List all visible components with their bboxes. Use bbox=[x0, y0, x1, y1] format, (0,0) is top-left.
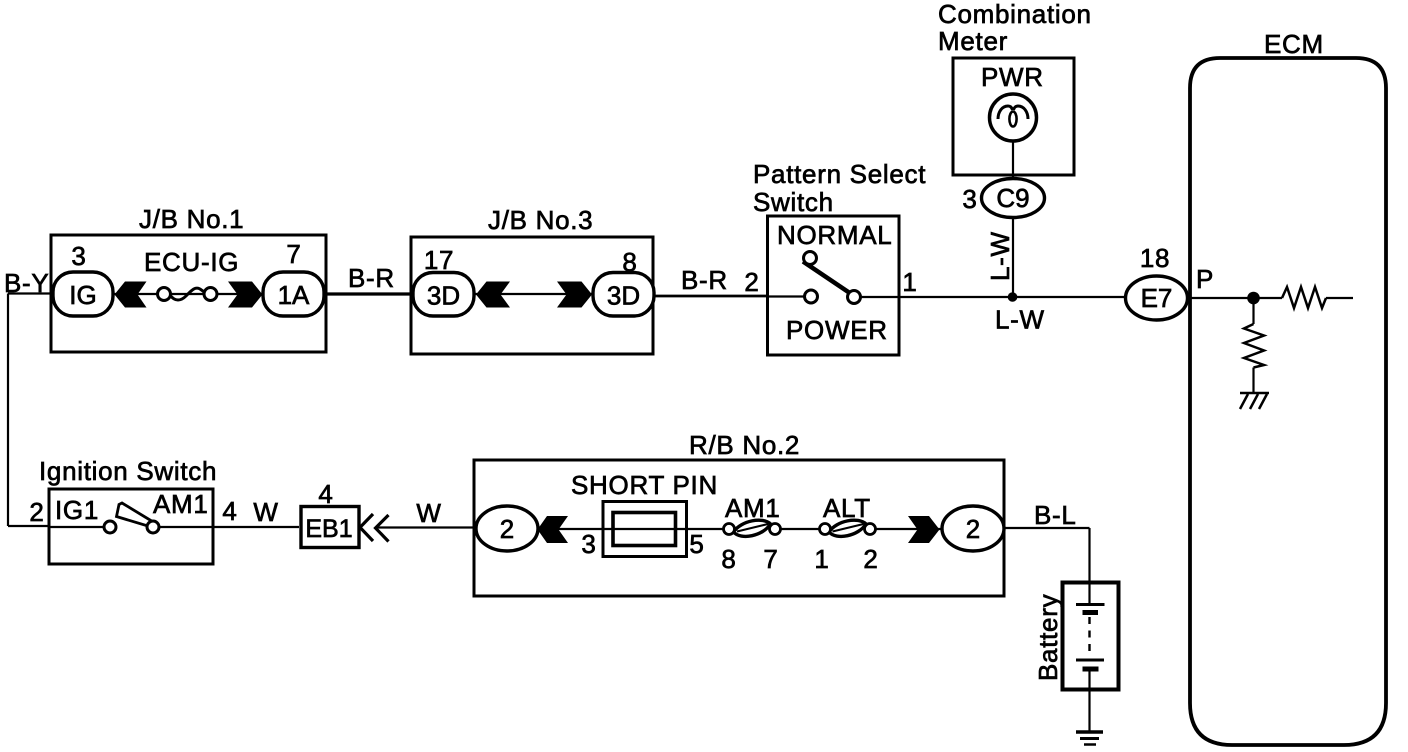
svg-text:4: 4 bbox=[318, 479, 333, 509]
svg-text:L-W: L-W bbox=[985, 231, 1015, 281]
svg-text:2: 2 bbox=[744, 267, 759, 297]
svg-text:Combination: Combination bbox=[938, 0, 1092, 29]
svg-text:POWER: POWER bbox=[786, 315, 888, 345]
svg-text:2: 2 bbox=[29, 497, 44, 527]
svg-text:4: 4 bbox=[222, 496, 237, 526]
svg-text:Ignition Switch: Ignition Switch bbox=[39, 456, 217, 486]
svg-text:Pattern Select: Pattern Select bbox=[753, 159, 926, 189]
svg-text:7: 7 bbox=[286, 239, 301, 269]
svg-text:B-R: B-R bbox=[348, 263, 395, 293]
svg-text:SHORT PIN: SHORT PIN bbox=[571, 470, 718, 500]
svg-text:EB1: EB1 bbox=[305, 515, 352, 543]
svg-text:Battery: Battery bbox=[1033, 594, 1063, 681]
svg-text:ECU-IG: ECU-IG bbox=[144, 247, 239, 277]
svg-text:3: 3 bbox=[71, 241, 86, 271]
svg-text:2: 2 bbox=[500, 514, 514, 544]
svg-text:L-W: L-W bbox=[995, 305, 1045, 335]
svg-text:C9: C9 bbox=[996, 183, 1029, 213]
svg-text:Switch: Switch bbox=[753, 187, 834, 217]
svg-text:W: W bbox=[253, 497, 278, 527]
svg-text:8: 8 bbox=[721, 544, 736, 574]
svg-text:PWR: PWR bbox=[981, 62, 1044, 92]
svg-text:Meter: Meter bbox=[938, 26, 1008, 56]
svg-text:ALT: ALT bbox=[823, 493, 871, 523]
svg-text:B-Y: B-Y bbox=[4, 268, 49, 298]
svg-text:18: 18 bbox=[1140, 243, 1170, 273]
svg-text:NORMAL: NORMAL bbox=[777, 220, 892, 250]
svg-text:3D: 3D bbox=[607, 281, 640, 311]
svg-text:2: 2 bbox=[966, 514, 980, 544]
svg-text:J/B No.1: J/B No.1 bbox=[139, 204, 244, 234]
svg-text:ECM: ECM bbox=[1264, 29, 1324, 59]
svg-text:3: 3 bbox=[581, 529, 596, 559]
svg-text:17: 17 bbox=[424, 245, 454, 275]
svg-text:P: P bbox=[1196, 264, 1214, 294]
svg-text:E7: E7 bbox=[1141, 283, 1173, 313]
svg-text:7: 7 bbox=[763, 544, 778, 574]
svg-text:3D: 3D bbox=[427, 281, 460, 311]
svg-text:AM1: AM1 bbox=[725, 493, 781, 523]
svg-text:1A: 1A bbox=[278, 280, 310, 310]
svg-text:J/B No.3: J/B No.3 bbox=[488, 205, 593, 235]
svg-text:B-L: B-L bbox=[1034, 500, 1077, 530]
svg-text:5: 5 bbox=[689, 529, 704, 559]
svg-text:B-R: B-R bbox=[681, 265, 728, 295]
svg-text:1: 1 bbox=[902, 267, 917, 297]
svg-text:AM1: AM1 bbox=[153, 489, 209, 519]
svg-text:8: 8 bbox=[622, 247, 637, 277]
svg-text:R/B No.2: R/B No.2 bbox=[689, 430, 800, 460]
svg-text:IG: IG bbox=[69, 280, 96, 310]
svg-text:3: 3 bbox=[962, 184, 977, 214]
svg-text:W: W bbox=[416, 498, 441, 528]
svg-text:2: 2 bbox=[863, 544, 878, 574]
svg-text:1: 1 bbox=[814, 544, 829, 574]
svg-text:IG1: IG1 bbox=[55, 495, 99, 525]
